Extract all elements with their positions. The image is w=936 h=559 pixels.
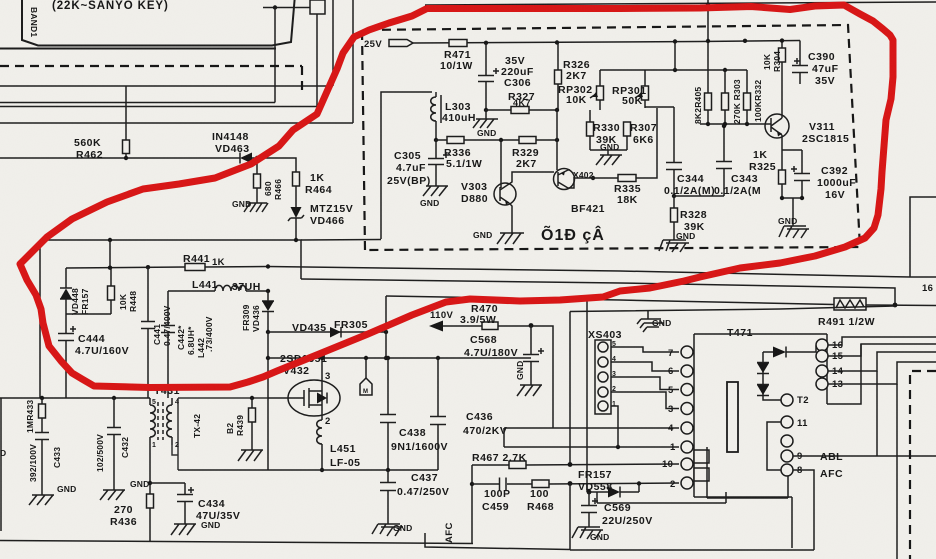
- wire x=268 vertical to MOSFET section: [267, 332, 269, 470]
- wire bottom segment left: [425, 533, 570, 550]
- node C432: [112, 396, 116, 400]
- node VD435 right: [384, 330, 388, 334]
- node C344/R328: [672, 194, 676, 198]
- wire y=86: [0, 85, 333, 87]
- capacitor C392: [791, 150, 810, 198]
- resistor R405: [707, 41, 709, 124]
- wire vertical x=275: [274, 8, 276, 103]
- wire AFC: [793, 470, 814, 550]
- wire x=675: [674, 42, 676, 71]
- ground R439: [238, 450, 263, 461]
- wire pin11 bracket: [767, 422, 781, 470]
- mid pin circles T471: [781, 394, 793, 476]
- capacitor C459: [500, 478, 507, 491]
- resistor R327: [511, 107, 529, 114]
- diode VD558: [589, 484, 639, 498]
- pointer 25V flag: [389, 40, 413, 47]
- node L303/C305: [434, 138, 438, 142]
- resistor R326: [557, 43, 559, 110]
- node R441 left: [108, 266, 112, 270]
- wire bottom bus y=470: [178, 469, 438, 471]
- resistor R467: [509, 461, 526, 469]
- arrow 110V: [429, 321, 443, 332]
- wire R336/R329 row y=140: [436, 139, 557, 141]
- bottom box rail: [570, 549, 814, 551]
- resistor R466: [254, 174, 261, 188]
- resistor R491 (zigzag): [834, 298, 866, 310]
- wire x=570 down to bottom box: [569, 484, 571, 551]
- resistor R470: [482, 322, 498, 330]
- ground under C305: [423, 186, 448, 196]
- wire L441 row y=291: [168, 290, 268, 292]
- capacitor C434: [177, 483, 194, 524]
- node R405 top: [706, 39, 710, 43]
- ground C568: [517, 385, 542, 396]
- box T471: [694, 334, 827, 548]
- node top bus: [706, 2, 710, 6]
- wire A y=266 long (R441 net): [268, 267, 936, 278]
- wire pin13 exit: [828, 362, 936, 384]
- resistor R448: [66, 268, 115, 314]
- core bar T471: [727, 382, 738, 452]
- ground C569 (slanted): [572, 527, 603, 539]
- resistor R304: [781, 41, 783, 115]
- wire V303 collector to V402: [509, 172, 554, 184]
- node x=110 top: [108, 238, 112, 242]
- node MTZ bottom: [294, 238, 298, 242]
- wire emitter bottom y=198: [782, 198, 802, 226]
- resistor R433: [41, 398, 43, 430]
- wire drain bus y=358: [268, 357, 531, 359]
- wire D y=310: [570, 306, 895, 312]
- node base V303: [499, 138, 503, 142]
- inner solid box edges: [381, 92, 432, 239]
- capacitor C390: [792, 41, 808, 85]
- nodes 25V rail right: [743, 39, 747, 43]
- transistor V311: [764, 114, 789, 138]
- wire diode chain vertical: [763, 352, 781, 400]
- diode FR309/VD436: [262, 291, 274, 332]
- inner bracket pins 1-10-2: [707, 447, 788, 498]
- wire x=386 vertical: [385, 296, 387, 358]
- diode VD448: [60, 268, 72, 314]
- ground C433: [29, 495, 54, 505]
- capacitor C444: [58, 314, 76, 398]
- wire corner x=861 down: [827, 344, 861, 404]
- wire x=472: [471, 465, 473, 544]
- capacitor C569: [581, 492, 598, 527]
- wire source down: [321, 415, 323, 420]
- wire x=110 drop: [109, 240, 111, 268]
- inductor L441: [215, 285, 246, 291]
- wire x=877 down: [876, 371, 878, 456]
- ground under C306: [473, 110, 498, 128]
- wire top bus y=4: [425, 2, 936, 5]
- wire stub y=7: [263, 7, 312, 9]
- jumper rects pins 1/10/2: [694, 450, 709, 463]
- wire snubber box top y=240: [40, 240, 301, 279]
- node XS pin1 drop: [616, 445, 620, 449]
- ground R328 (slanted): [659, 240, 689, 252]
- wire x=557 base V402: [556, 110, 558, 170]
- capacitor C343: [716, 126, 732, 196]
- V303 emitter ground: [497, 203, 524, 244]
- node R462: [124, 156, 128, 160]
- wire C459 row y=484: [472, 483, 679, 484]
- wire y=398 rail: [0, 397, 150, 399]
- box T431 secondary: [172, 398, 269, 470]
- wire pin1 row y=447: [504, 446, 679, 448]
- box segment bottom: [597, 492, 726, 503]
- resistor R307: [624, 122, 631, 136]
- wire V311 emitter: [782, 135, 802, 170]
- resistor R332: [746, 70, 748, 124]
- diode chain D2: [757, 385, 769, 396]
- resistor R462: [125, 86, 127, 158]
- dashed boundary vertical stub x=302: [301, 66, 303, 96]
- ground C434: [171, 524, 196, 535]
- resistor R325: [779, 170, 786, 184]
- wire vertical into box x=708: [707, 0, 709, 41]
- wire B y=279 long: [301, 279, 895, 304]
- node wire y358 start: [266, 356, 270, 360]
- wire y=102: [0, 102, 275, 104]
- resistor R336: [447, 137, 464, 144]
- wire 25V rail y=43: [413, 41, 800, 44]
- resistor R471: [449, 40, 467, 47]
- wire VD435 row y=332: [268, 331, 386, 333]
- box tuner: [22, 0, 295, 46]
- capacitor C441: [141, 267, 155, 398]
- wire vertical x=333: [332, 0, 334, 86]
- wire bottom of tuner: [0, 48, 276, 50]
- node wireB/wireC join: [893, 303, 898, 308]
- wire x=897 down: [896, 384, 898, 559]
- wire R470 row y=326: [443, 326, 553, 428]
- node 25V rail x=675: [673, 39, 677, 43]
- wire XS pin4 to T6: [611, 362, 679, 371]
- diode VD435: [330, 327, 341, 338]
- wire R327 row y=110: [486, 109, 557, 111]
- transistor V303: [494, 140, 516, 205]
- capacitor C433: [35, 430, 49, 495]
- scan noise overlay: [0, 0, 1, 1]
- node C437: [386, 468, 390, 472]
- node VD435 left: [266, 330, 270, 334]
- capacitor C306: [478, 43, 499, 108]
- wire x=587 long vertical: [586, 299, 588, 492]
- left pin circles T471: [681, 346, 693, 489]
- node x=386 on y358: [384, 356, 388, 360]
- resistor R436: [149, 483, 151, 542]
- wire y=196: [674, 195, 724, 197]
- capacitor C432: [107, 398, 121, 490]
- resistor R441: [185, 264, 205, 271]
- fuse link symbol: [360, 356, 372, 395]
- resistor R464: [293, 172, 300, 186]
- resistor R328: [673, 196, 675, 240]
- connector body XS403: [595, 340, 611, 414]
- wire R335 row: [572, 108, 657, 188]
- wire A corner up at right: [910, 197, 936, 277]
- wire y=70: [600, 69, 747, 71]
- ground hook on wire D: [637, 311, 664, 332]
- inductor L303: [431, 92, 441, 140]
- wire R466 drop: [256, 158, 258, 174]
- ground under R466: [244, 203, 268, 212]
- node VD463 out: [255, 156, 259, 160]
- wire to R464 corner: [257, 158, 296, 172]
- wire XS pin1 drop: [611, 406, 618, 447]
- wire 560K row y=158: [0, 157, 240, 159]
- wire pin15 exit: [828, 344, 936, 356]
- wire vertical x=317: [316, 14, 318, 106]
- node x=570 on y=310: [569, 312, 571, 465]
- wire y=123: [0, 122, 353, 124]
- resistor R329: [519, 137, 536, 144]
- resistor R468: [532, 480, 549, 488]
- capacitor C442: [161, 291, 175, 398]
- resistor R439: [251, 398, 253, 450]
- wire R467/pin10 row y=465: [472, 464, 679, 465]
- connector block small: [310, 0, 325, 14]
- potentiometer RP302: [590, 70, 604, 110]
- node pin2/x570: [568, 481, 573, 486]
- node x=275: [273, 5, 277, 9]
- diode chain D1: [757, 363, 769, 374]
- bottom rail: [0, 541, 473, 544]
- diode rectifier top: [763, 346, 816, 358]
- wire vertical x=353: [352, 0, 354, 123]
- wire pin16 exit: [828, 337, 936, 345]
- wire base V311 y=124: [700, 123, 764, 125]
- wire C434 branch: [150, 482, 185, 484]
- node C441 top: [146, 265, 150, 269]
- node x=675: [673, 68, 677, 72]
- ground V311 (slanted): [779, 226, 809, 238]
- ground C437 (slanted): [372, 524, 403, 536]
- pin circles XS403: [598, 342, 608, 411]
- dashed boundary left horizontal y=66: [0, 65, 302, 67]
- node R326 bottom: [555, 108, 559, 112]
- wire x=504: [503, 428, 505, 447]
- wire drain up: [321, 358, 323, 381]
- node L441 right: [266, 289, 270, 293]
- dashed box regulator: [362, 25, 860, 250]
- wire ABL: [793, 455, 936, 457]
- node R441 right: [266, 264, 270, 268]
- resistor R303: [724, 70, 726, 124]
- capacitor C305: [428, 140, 449, 186]
- node R326 top: [555, 40, 559, 44]
- node V402 collector: [591, 176, 595, 180]
- dashed box bottom-right: [910, 371, 936, 559]
- resistor R330: [590, 110, 627, 150]
- wire pin14 exit: [828, 352, 936, 371]
- transistor V432 MOSFET: [268, 380, 340, 416]
- wire y=107 RP301 wiper: [645, 106, 674, 108]
- potentiometer RP301: [635, 70, 649, 108]
- box left edge: [39, 240, 41, 398]
- ground R330/R307: [596, 150, 622, 165]
- wire C rail y=298 (R491 net): [386, 296, 936, 306]
- right pin circles T471: [816, 339, 828, 390]
- transformer T431: [150, 398, 172, 483]
- node x=725: [723, 68, 727, 72]
- resistor R335: [618, 175, 636, 182]
- wire y=106: [0, 106, 317, 108]
- node R433: [40, 396, 44, 400]
- wire XS pin2 to T3: [611, 392, 679, 409]
- diode VD463: [240, 153, 257, 164]
- ground C432: [100, 490, 125, 500]
- node C306 bottom on R327 wire: [484, 108, 488, 112]
- capacitor C437: [380, 470, 396, 524]
- capacitor C568: [523, 326, 544, 385]
- transistor V402 BF421: [554, 169, 575, 190]
- node C306 top: [484, 41, 488, 45]
- left border vertical: [0, 398, 2, 531]
- capacitor C344: [666, 107, 682, 196]
- wire XS pin3 to T5: [611, 377, 679, 390]
- inductor L451: [317, 420, 322, 470]
- wire pin4 row y=428: [504, 427, 679, 429]
- node C568 tap: [529, 323, 534, 328]
- wire XS pin5 to T7: [611, 347, 679, 352]
- wire R441 row y=267: [66, 267, 268, 269]
- zener diode VD466: [288, 207, 304, 240]
- capacitor C438: [380, 358, 396, 470]
- node R439 top: [250, 396, 254, 400]
- capacitor C436: [430, 358, 446, 470]
- wire inner box bottom to x=381: [301, 239, 381, 242]
